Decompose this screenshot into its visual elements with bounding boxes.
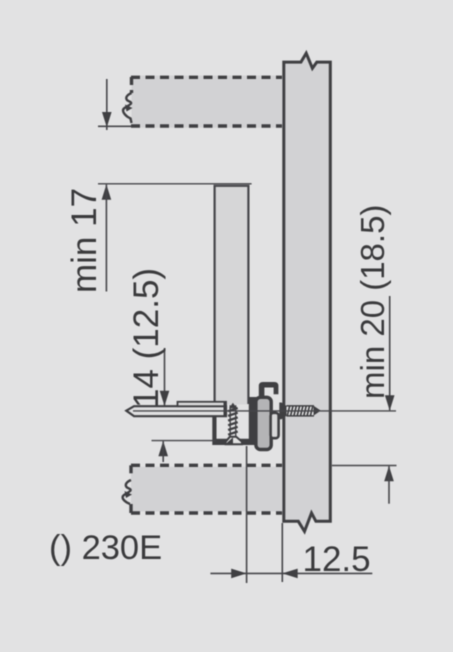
bracket hook bbox=[259, 382, 279, 404]
dim min20 down arrow bbox=[385, 395, 395, 410]
dim min17 down arrow bbox=[102, 112, 112, 127]
cabinet side panel bbox=[284, 53, 331, 531]
drawer back bar outline bbox=[215, 186, 249, 404]
drawer side panel break squiggle bbox=[123, 93, 131, 123]
roller bbox=[256, 397, 271, 449]
axis centerline bbox=[133, 410, 396, 412]
roller axle clip bbox=[271, 413, 279, 438]
dim min17 upper line bbox=[106, 79, 108, 130]
dim 12.5 right arrow bbox=[231, 569, 246, 579]
drawer side panel (top, dashed) fill bbox=[132, 76, 283, 128]
vertical screw bbox=[226, 403, 242, 444]
extension line at bar top bbox=[98, 183, 252, 185]
drawer rail body bbox=[126, 406, 226, 416]
drawer rail right end cap bbox=[224, 402, 227, 416]
lower shelf (bottom, dashed) fill bbox=[131, 467, 282, 512]
svg-text:12.5: 12.5 bbox=[303, 540, 371, 579]
svg-text:min 20 (18.5): min 20 (18.5) bbox=[354, 205, 391, 399]
dim 14(12.5) upper line bbox=[164, 348, 166, 406]
dim 14(12.5) down arrow bbox=[160, 391, 170, 406]
mounting bracket (dark cabinet profile) bbox=[212, 397, 262, 445]
horizontal screw bbox=[279, 403, 321, 420]
dim 12.5 left arrow bbox=[282, 569, 297, 579]
dim min20 lower shaft bbox=[388, 466, 390, 504]
dim min17 lower line bbox=[105, 185, 107, 292]
dim min20 lower ext line bbox=[332, 465, 397, 467]
lower shelf left dashed edge bbox=[129, 465, 132, 478]
dim 14(12.5) up arrow bbox=[158, 441, 168, 456]
dim 12.5 ext line right (panel edge extension) bbox=[281, 523, 283, 582]
dim min17 tick bbox=[98, 125, 132, 127]
drawer side panel bottom dashed edge bbox=[131, 124, 282, 127]
lower shelf top dashed edge bbox=[131, 464, 282, 467]
svg-text:14 (12.5): 14 (12.5) bbox=[127, 268, 166, 408]
dim 14(12.5) lower shaft bbox=[162, 441, 164, 462]
dim 12.5 ext line left bbox=[246, 446, 248, 583]
svg-text:() 230E: () 230E bbox=[49, 529, 162, 567]
drawer back bar fill bbox=[215, 185, 249, 405]
dim min20 up arrow bbox=[384, 466, 394, 481]
lower shelf bottom dashed edge bbox=[131, 511, 282, 514]
dim 12.5 line bbox=[210, 572, 372, 574]
drawer side panel left dashed edge bbox=[130, 77, 133, 93]
lower shelf break squiggle bbox=[123, 480, 131, 504]
svg-text:min 17: min 17 bbox=[65, 188, 104, 293]
dim min17 up arrow bbox=[102, 184, 112, 199]
dim 14(12.5) lower ext line bbox=[152, 440, 217, 442]
drawer side panel top dashed edge bbox=[131, 76, 282, 79]
dim min20 upper line bbox=[389, 296, 391, 410]
drawer rail top lip bbox=[178, 402, 227, 406]
